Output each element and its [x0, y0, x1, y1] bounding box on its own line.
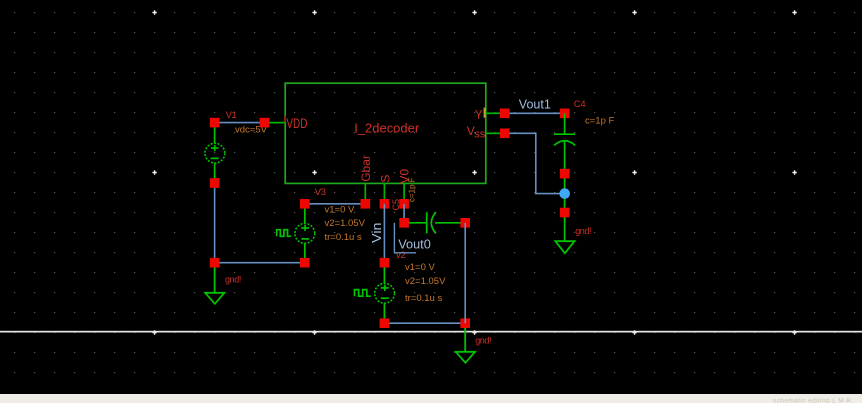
svg-text:c=1p F: c=1p F	[585, 115, 615, 126]
svg-text:v1=0 V: v1=0 V	[405, 262, 436, 273]
svg-text:VDD: VDD	[286, 116, 307, 131]
pin VDD label	[286, 116, 307, 131]
capacitor C4	[554, 113, 575, 241]
label I_2decoder	[354, 121, 420, 136]
sheet boundary line	[0, 331, 862, 333]
pin stub VDD	[269, 122, 286, 124]
wire Vin vertical	[383, 204, 385, 263]
terminal square V1 bottom	[210, 178, 220, 188]
pin marker VDD	[284, 116, 286, 123]
terminal square V3 top	[300, 199, 310, 209]
svg-text:V1: V1	[226, 110, 237, 121]
decoder U1 I_2decoder body	[285, 83, 486, 183]
label V2 tr=0.1u s	[405, 293, 442, 304]
ground right	[555, 241, 574, 253]
voltage source V2	[355, 268, 395, 319]
pin marker Y	[484, 108, 486, 118]
label C5 c=1p F	[407, 177, 416, 202]
terminal square C5 right	[460, 218, 470, 228]
terminal square Gbar	[361, 199, 371, 209]
svg-text:Vout1: Vout1	[519, 96, 551, 111]
terminal square V1 top	[210, 118, 220, 128]
pin stub Y	[486, 112, 501, 114]
svg-text:v2=1.05V: v2=1.05V	[325, 218, 366, 229]
terminal square gnd right	[560, 208, 570, 218]
terminal square Vin bottom	[380, 258, 390, 268]
terminal square C5 left	[399, 218, 409, 228]
label V3 tr=0.1u s	[325, 232, 362, 243]
terminal square bottom right node	[460, 318, 470, 328]
pin Gbar label	[359, 155, 373, 182]
label C4 c=1p F	[585, 115, 615, 126]
terminal square C4 bottom	[560, 169, 570, 179]
svg-text:Vout0: Vout0	[398, 237, 431, 252]
pin S label	[378, 175, 392, 183]
pin stub Vss	[486, 132, 501, 134]
label vdc=5V	[235, 125, 268, 136]
terminal square V3 bottom	[300, 258, 310, 268]
label V1	[226, 110, 237, 121]
wire V2 bottom row	[384, 322, 465, 324]
pin stub V0	[403, 183, 405, 199]
label V2 v1=0 V	[405, 262, 436, 273]
svg-text:v1=0 V: v1=0 V	[325, 205, 356, 216]
svg-text:S: S	[378, 175, 392, 183]
voltage source V1	[205, 127, 225, 178]
terminal square left gnd node	[210, 258, 220, 268]
svg-text:Vin: Vin	[369, 223, 384, 244]
window bottom bar	[0, 394, 862, 403]
label V2 v2=1.05V	[405, 276, 446, 287]
label V3 v1=0 V	[325, 205, 356, 216]
ground left	[205, 268, 224, 304]
wire V0 down to C5	[403, 204, 405, 223]
pin Vss label	[467, 124, 486, 140]
svg-text:gnd!: gnd!	[475, 335, 491, 345]
svg-text:v2=1.05V: v2=1.05V	[405, 276, 446, 287]
wire V1 bottom down	[214, 183, 216, 263]
label v2	[396, 250, 405, 261]
pin Y label	[475, 107, 483, 122]
wire C5 right down	[464, 223, 466, 323]
wire V1 top to VDD	[215, 122, 265, 124]
terminal square Y	[500, 109, 510, 119]
terminal square VDD	[260, 118, 270, 128]
pin V0 label	[397, 169, 411, 184]
net label Vin	[369, 223, 384, 244]
net label Vout1	[519, 96, 551, 111]
svg-text:C4: C4	[574, 99, 586, 110]
terminal square C4 top	[560, 109, 570, 119]
wire Vss to junction	[505, 133, 560, 193]
svg-text:tr=0.1u s: tr=0.1u s	[325, 232, 362, 243]
svg-text:gnd!: gnd!	[575, 226, 591, 236]
label V3 v2=1.05V	[325, 218, 366, 229]
ground bottom	[456, 328, 475, 363]
terminal square S	[380, 199, 390, 209]
terminal square V2 bottom	[380, 318, 390, 328]
label C4	[574, 99, 586, 110]
svg-text:schematic editing L M R: schematic editing L M R	[773, 397, 851, 403]
svg-text:v2: v2	[396, 250, 405, 261]
bright grid crosses	[152, 10, 796, 334]
svg-text:Y: Y	[475, 107, 483, 122]
wire Y to C4	[505, 112, 565, 114]
svg-text:C5: C5	[391, 199, 401, 211]
junction node	[559, 188, 570, 199]
label gnd! left	[225, 274, 241, 284]
wire V3 top to Gbar	[305, 203, 366, 205]
voltage source V3	[277, 209, 315, 259]
terminal square Vss	[500, 129, 510, 139]
capacitor C5	[404, 212, 465, 233]
svg-text:gnd!: gnd!	[225, 274, 241, 284]
pin stub S	[383, 183, 385, 199]
terminal square V0	[399, 199, 409, 209]
label C5	[391, 199, 401, 211]
label V3	[315, 187, 326, 198]
wire gnd row left	[215, 262, 305, 264]
svg-text:V3: V3	[315, 187, 326, 198]
label gnd! bottom	[475, 335, 491, 345]
svg-text:I_2decoder: I_2decoder	[354, 121, 420, 136]
pin stub Gbar	[364, 183, 366, 199]
svg-text:c=1p F: c=1p F	[407, 177, 416, 202]
net label Vout0	[394, 223, 430, 253]
svg-text:tr=0.1u s: tr=0.1u s	[405, 293, 442, 304]
label gnd! right	[575, 226, 591, 236]
svg-text:Gbar: Gbar	[359, 155, 373, 182]
